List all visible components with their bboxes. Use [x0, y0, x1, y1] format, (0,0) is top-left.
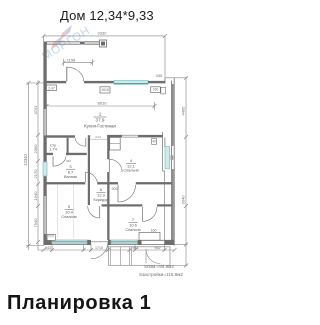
H5 (corridor south wall): [102, 204, 143, 206]
svg-text:Спальня: Спальня: [61, 215, 76, 219]
svg-text:5: 5: [68, 204, 71, 209]
V3 (main vertical wall): [107, 135, 109, 159]
left wall teal window: [43, 162, 47, 176]
D2 door arc: [85, 138, 87, 146]
svg-text:345: 345: [156, 73, 163, 78]
svg-text:360: 360: [66, 159, 71, 163]
svg-text:2360: 2360: [33, 144, 38, 154]
door dim line: [64, 62, 93, 64]
svg-text:952: 952: [155, 246, 161, 250]
svg-text:Sзастройки=115.9м2: Sзастройки=115.9м2: [139, 271, 183, 277]
teal window in H1: [114, 80, 148, 84]
svg-text:943: 943: [45, 246, 51, 250]
svg-text:10.4: 10.4: [65, 210, 74, 215]
bottom wall: [44, 239, 92, 241]
svg-text:12.9: 12.9: [97, 193, 106, 198]
svg-text:3.01: 3.01: [95, 135, 101, 139]
bottom label: [7, 292, 151, 315]
inner wall line right side: [162, 132, 164, 171]
svg-text:10.6: 10.6: [129, 223, 138, 228]
bottom teal window B: [111, 240, 138, 244]
svg-text:4701: 4701: [33, 105, 38, 115]
svg-text:6: 6: [100, 187, 103, 192]
H2 left (kitchen south, vestibule north): [47, 135, 76, 137]
svg-text:8610: 8610: [98, 101, 108, 106]
svg-text:37.9: 37.9: [96, 118, 105, 123]
left wall window mid-lines: [44, 109, 46, 136]
faint guide lines in bedroom 5: [57, 185, 59, 238]
bedroom5 door in H4 left of V3: [99, 206, 101, 218]
watermark logo + text: [0, 0, 220, 325]
left outer dimension line: [28, 83, 30, 250]
svg-text:2.47: 2.47: [48, 87, 55, 91]
V2 (vestibule/bath right wall): [88, 138, 90, 205]
top wall window 1: [47, 41, 80, 43]
svg-text:1198: 1198: [67, 58, 76, 63]
D4 arc (bath door): [84, 172, 86, 182]
H3 (WC south wall): [47, 153, 54, 155]
svg-text:9330: 9330: [98, 31, 108, 36]
svg-text:1618: 1618: [101, 88, 109, 92]
left wall solid segments: [44, 44, 46, 109]
svg-text:160: 160: [153, 88, 159, 92]
bottom teal window A: [52, 240, 87, 244]
door D1 leaf and arc: [66, 67, 68, 81]
top wall window 2: [85, 41, 100, 43]
H2 right (bedroom4 north): [107, 135, 122, 138]
bottom dim ticks: [42, 248, 46, 252]
svg-text:3: 3: [69, 164, 72, 169]
title: [60, 8, 154, 23]
closet in bedroom 4: [110, 137, 121, 150]
svg-text:6.7: 6.7: [68, 170, 74, 175]
svg-text:Кухня-Гостиная: Кухня-Гостиная: [84, 124, 116, 129]
entry door leaf + arc swinging out: [91, 241, 108, 243]
svg-text:3340: 3340: [181, 195, 186, 205]
right wall teal window: [165, 147, 170, 169]
door from corridor into bedroom4 through V3: [109, 159, 111, 172]
svg-text:Спальня: Спальня: [125, 228, 140, 232]
V1 (WC right wall): [67, 138, 69, 156]
chimney block bottom left: [47, 234, 55, 240]
top dimension line: [44, 35, 166, 37]
svg-text:7940: 7940: [33, 218, 38, 228]
svg-text:1.74: 1.74: [49, 147, 58, 152]
svg-text:Ванная: Ванная: [64, 175, 77, 179]
top wall pier left: [44, 42, 48, 45]
top wall pier right (column): [100, 40, 107, 47]
svg-text:948: 948: [133, 246, 139, 250]
svg-text:7: 7: [132, 217, 135, 222]
svg-text:1710: 1710: [95, 246, 103, 250]
left wall: [43, 42, 45, 246]
svg-text:160: 160: [151, 229, 157, 233]
svg-text:1940: 1940: [33, 191, 38, 201]
top wall pier mid: [80, 42, 85, 45]
bottom right area texts: [139, 264, 183, 277]
svg-text:Sпом.=94.9м2: Sпом.=94.9м2: [144, 264, 174, 269]
svg-text:2170: 2170: [33, 169, 38, 179]
kitchen dimension line: [47, 105, 155, 107]
right step wall: [164, 78, 166, 84]
svg-text:Коридор: Коридор: [94, 198, 109, 202]
left inner dimension line: [37, 80, 39, 250]
D3 arc: [52, 156, 54, 166]
svg-text:1: 1: [99, 112, 102, 117]
svg-text:903: 903: [112, 187, 118, 191]
D7 arc (bedroom6 door): [141, 207, 143, 222]
bottom step box: [139, 232, 160, 240]
small labelled boxes under H1: [100, 87, 110, 93]
H4 (bath/bed4 south wall): [47, 182, 86, 184]
right wall: [173, 78, 175, 246]
svg-text:40: 40: [152, 140, 156, 144]
svg-text:4495: 4495: [181, 106, 186, 116]
watermark logo diamond: [51, 25, 72, 50]
wall H1 (y=81-83.5): [47, 81, 67, 83]
svg-text:Спальня: Спальня: [123, 168, 138, 172]
svg-text:12340: 12340: [23, 154, 28, 166]
step dim at top right: [165, 77, 175, 79]
D5 arc (bedroom4 door): [117, 185, 119, 202]
right dimension line: [185, 78, 187, 266]
box at right end of H2: [152, 139, 157, 145]
svg-text:4: 4: [130, 158, 133, 163]
corner box top-left below H1: [47, 85, 57, 91]
